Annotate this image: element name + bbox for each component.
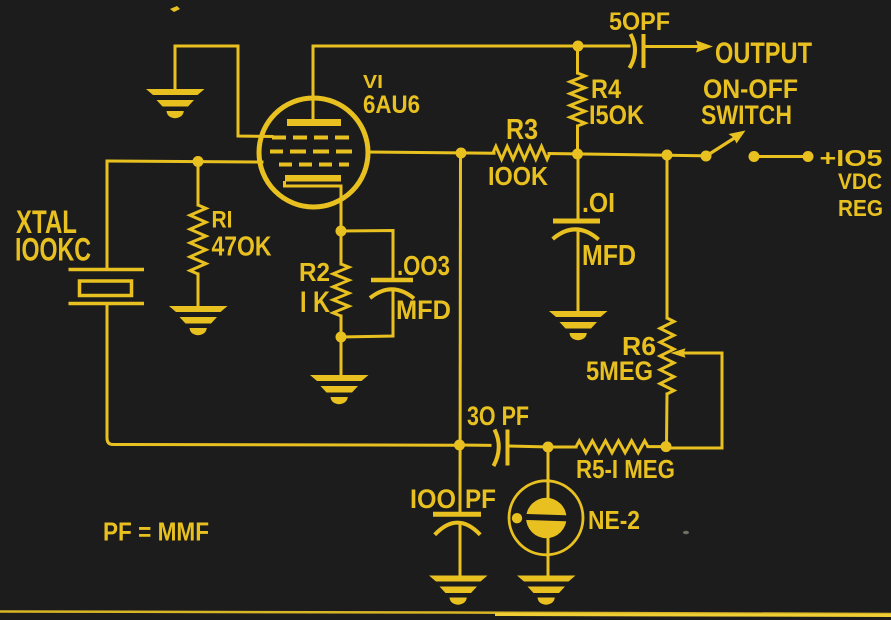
tube cathode bar	[285, 175, 341, 182]
capacitor .01 bottom plate	[553, 229, 599, 239]
svg-text:PF: PF	[465, 484, 496, 514]
node rail-J4	[662, 150, 673, 161]
wire 100PF bottom lead	[459, 525, 462, 576]
crystal bottom plate	[69, 302, 145, 306]
resistor R2	[333, 264, 349, 316]
wire R6 bottom lead	[665, 394, 669, 446]
wire R2 top lead	[340, 231, 343, 264]
capacitor .003 bottom plate	[370, 289, 414, 298]
node switch pivot	[701, 151, 712, 162]
ground R1	[169, 306, 228, 335]
tube plate bar	[287, 119, 341, 126]
node R2 bottom junction	[336, 332, 347, 343]
svg-text:PF = MMF: PF = MMF	[103, 517, 209, 547]
capacitor 100PF bottom plate	[435, 523, 481, 535]
svg-text:MFD: MFD	[396, 295, 451, 325]
wire .01 bottom lead	[577, 229, 580, 311]
wire R2 ground lead	[340, 337, 343, 375]
wire R5 right lead	[648, 445, 666, 448]
wire R6 top lead	[666, 155, 669, 318]
wire R1 bottom lead	[197, 274, 200, 306]
wire 30PF right lead	[509, 446, 548, 447]
node cathode junction	[336, 226, 347, 237]
node 30PF junction	[454, 440, 465, 451]
tube grid 2 dashed	[270, 150, 353, 154]
node grid junction	[193, 156, 204, 167]
wire NE-2 top lead	[547, 447, 550, 499]
crystal top plate	[69, 268, 145, 272]
wire grid to 30PF	[459, 153, 463, 514]
ground .01	[549, 311, 608, 340]
node R5 right junction	[661, 441, 672, 452]
ground R2	[310, 375, 369, 404]
svg-text:R2: R2	[299, 257, 330, 287]
wire .01 top lead	[577, 154, 580, 221]
wire plate-rail left	[367, 152, 494, 153]
wire R1 top lead	[197, 162, 200, 206]
svg-text:REG: REG	[838, 195, 883, 221]
ground NE-2	[517, 576, 576, 605]
wire .003 top branch	[341, 231, 393, 280]
tube grid 3 dashed	[277, 163, 349, 167]
resistor R4	[570, 73, 585, 126]
page edge line right	[495, 615, 891, 616]
crystal body	[80, 281, 132, 296]
resistor R1	[190, 205, 206, 274]
svg-text:5MEG: 5MEG	[586, 356, 653, 386]
wire R2 bottom lead	[340, 316, 343, 337]
wire rail R3 to switch	[549, 154, 707, 156]
capacitor 30PF left plate	[494, 430, 499, 467]
ground G1	[146, 89, 205, 118]
page edge line	[0, 612, 891, 615]
wire R4 bottom lead	[576, 126, 579, 154]
neon NE-2 electrode disc	[526, 498, 566, 538]
wire R4 top lead	[576, 46, 579, 73]
arrowhead switch arm	[729, 131, 746, 144]
wire 50PF to output	[645, 45, 699, 48]
svg-text:SWITCH: SWITCH	[701, 100, 792, 130]
svg-text:OUTPUT: OUTPUT	[715, 37, 812, 70]
capacitor 50PF right plate	[642, 34, 646, 68]
node switch contact left	[749, 151, 760, 162]
node plate-rail junction	[573, 41, 584, 52]
wire switch contact	[754, 155, 808, 158]
svg-text:RI: RI	[212, 207, 233, 234]
wire XTAL bottom to feedback	[107, 305, 459, 445]
svg-text:5OPF: 5OPF	[609, 8, 670, 36]
node NE-2 junction	[543, 442, 554, 453]
wire ground-to-grid top-left	[175, 46, 272, 137]
tube V1 envelope	[259, 98, 368, 207]
svg-text:VDC: VDC	[838, 169, 882, 194]
svg-text:MFD: MFD	[582, 240, 636, 272]
ground 100PF	[429, 576, 488, 605]
wire 30PF left lead	[460, 444, 491, 447]
svg-text:6AU6: 6AU6	[363, 91, 420, 119]
svg-text:IOOK: IOOK	[488, 161, 548, 191]
svg-text:+IO5: +IO5	[820, 145, 883, 171]
node rail-J3	[456, 148, 467, 159]
svg-text:NE-2: NE-2	[588, 505, 640, 535]
wire .003 bottom branch	[341, 290, 393, 338]
tube grid 1 dashed	[272, 136, 351, 140]
resistor R6	[660, 318, 674, 394]
capacitor .003 top plate	[371, 278, 413, 283]
capacitor .01 top plate	[553, 219, 600, 224]
arrowhead R6 wiper	[671, 348, 686, 358]
node rail-J2	[572, 149, 583, 160]
svg-text:IOOKC: IOOKC	[15, 232, 91, 268]
arrowhead output	[696, 41, 713, 53]
resistor R3	[493, 146, 550, 159]
svg-text:3O PF: 3O PF	[467, 401, 529, 431]
capacitor 30PF right plate	[506, 430, 510, 466]
svg-text:R3: R3	[506, 114, 538, 146]
wire XTAL top lead	[106, 161, 109, 268]
svg-text:I K: I K	[300, 286, 330, 319]
svg-text:I5OK: I5OK	[589, 100, 644, 130]
svg-text:R5-I MEG: R5-I MEG	[576, 454, 675, 484]
node switch contact right	[803, 151, 814, 162]
capacitor 100PF top plate	[433, 512, 481, 517]
wire plate to 50PF junction	[313, 46, 629, 119]
neon NE-2 side dot	[512, 513, 522, 523]
neon NE-2 electrode gap	[524, 514, 569, 522]
svg-text:.OO3: .OO3	[397, 250, 450, 281]
ink speck faint	[683, 531, 689, 535]
resistor R5	[576, 441, 648, 453]
wire wiper loop	[666, 353, 722, 448]
neon NE-2 envelope	[509, 481, 583, 555]
wire NE-2 bottom lead	[547, 537, 550, 576]
ink speck	[170, 6, 180, 12]
wire cathode lead	[340, 186, 343, 231]
wire R5 left lead	[548, 446, 576, 449]
svg-text:IOO: IOO	[410, 484, 456, 514]
svg-text:.OI: .OI	[582, 187, 615, 218]
svg-text:47OK: 47OK	[212, 231, 272, 262]
wire control grid	[107, 161, 262, 162]
svg-text:VI: VI	[363, 72, 383, 92]
tube cathode heater line	[285, 181, 342, 186]
capacitor 50PF left plate	[630, 34, 636, 68]
switch arm	[707, 137, 736, 156]
